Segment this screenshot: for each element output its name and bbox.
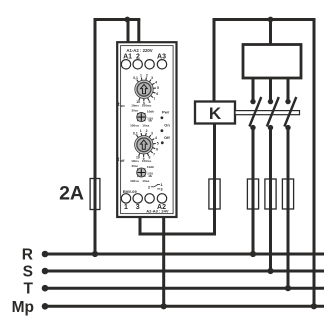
LED Pwr [161, 116, 164, 119]
LED label Pwr [162, 110, 170, 115]
junction: contact 1 on R [250, 251, 256, 257]
LED On [161, 129, 164, 132]
label EMV-09 [123, 189, 138, 194]
svg-text:Off: Off [164, 135, 170, 140]
svg-text:4: 4 [155, 136, 157, 140]
svg-text:6: 6 [156, 92, 158, 96]
svg-text:R: R [22, 247, 33, 264]
wire: load box leg 3 to contact [287, 76, 290, 100]
wire: drop to terminal A1 [127, 20, 130, 46]
fuse on K coil branch [209, 179, 220, 209]
svg-text:100sa: 100sa [130, 124, 139, 128]
contact 3 blade [284, 97, 296, 127]
terminal dot S [42, 268, 49, 275]
svg-text:3: 3 [151, 76, 153, 80]
svg-text:100ms: 100ms [142, 159, 152, 163]
svg-text:7: 7 [153, 152, 155, 156]
svg-text:2A: 2A [59, 183, 84, 205]
LED label On [164, 123, 170, 128]
wire: K coil down through fuse [213, 124, 216, 236]
svg-text:5: 5 [157, 86, 159, 90]
output contact symbol 2-1/3 [148, 182, 164, 191]
svg-text:S: S [23, 264, 33, 281]
svg-text:10dk: 10dk [147, 110, 154, 114]
svg-text:dk: dk [149, 174, 153, 178]
wire: contact 3 down to T line [287, 128, 290, 288]
label Mp [12, 299, 34, 316]
junction: contact 3 on T [285, 285, 291, 291]
terminal dot R [42, 251, 49, 258]
bottom terminal circle 3 [145, 194, 154, 203]
label A1-A2 : 220V [126, 48, 152, 53]
fuse phase 3 [282, 179, 293, 209]
fuse F1 2A (left) [90, 179, 100, 210]
bottom terminal circle 2 [133, 194, 142, 203]
contact 2 lower terminal [268, 125, 273, 130]
label S [23, 264, 33, 281]
contact 1 upper terminal [250, 99, 255, 104]
bus line R [43, 253, 324, 256]
svg-text:4: 4 [155, 80, 157, 84]
svg-text:30sn: 30sn [132, 164, 139, 168]
svg-text:Pwr: Pwr [162, 110, 170, 115]
top terminal circle 2 [133, 60, 142, 69]
contact 1 lower terminal [250, 125, 255, 130]
wire: contact 1 down to R line [252, 128, 255, 254]
terminal dot Mp [42, 303, 49, 310]
wire: load box leg 2 to contact [269, 76, 272, 100]
label toff [118, 157, 126, 163]
top terminal circle 1 [121, 60, 130, 69]
svg-text:10ms: 10ms [131, 159, 139, 163]
svg-text:on: on [120, 104, 124, 108]
terminal label 1 [124, 204, 128, 211]
svg-text:0,1: 0,1 [133, 76, 138, 80]
svg-text:T: T [24, 281, 34, 298]
contact 1 blade [249, 97, 261, 127]
svg-text:2: 2 [146, 129, 148, 133]
svg-text:6: 6 [156, 147, 158, 151]
svg-text:30sn: 30sn [132, 109, 139, 113]
svg-text:100sa: 100sa [130, 179, 139, 183]
wire: right vertical rail to Mp [313, 18, 316, 306]
junction: top-left rail / A1 drop [124, 17, 130, 23]
bottom terminal circle 1 [121, 194, 130, 203]
junction: top-right rail / load feed [268, 17, 274, 23]
wire: rail down to load box [269, 20, 272, 46]
top terminal circle 4 [157, 60, 166, 69]
junction: contact 2 on S [267, 268, 273, 274]
contactor coil K [195, 102, 235, 124]
wire: drop from terminal 3 [139, 216, 142, 236]
svg-text:0,1: 0,1 [133, 132, 138, 136]
label A2-A3 : 24V [146, 209, 169, 214]
svg-text:On: On [164, 123, 170, 128]
terminal label 3 [136, 204, 140, 211]
svg-text:10sa: 10sa [142, 179, 149, 183]
range selector toff [130, 159, 154, 183]
wire: contact 2 down to S line [269, 128, 272, 271]
svg-text:1: 1 [140, 129, 142, 133]
mechanical linkage bar [235, 111, 300, 115]
LED label Off [164, 135, 170, 140]
terminal label A3 [157, 54, 166, 61]
fuse phase 2 [265, 179, 276, 209]
contact 2 upper terminal [268, 99, 273, 104]
timer relay EMV-09 body [117, 42, 176, 217]
wire: top-right horizontal rail [213, 18, 316, 21]
junction: left vertical on R [92, 251, 98, 257]
wire: horizontal link terminal 3 to K branch [139, 233, 217, 236]
top terminal circle 3 [145, 60, 154, 69]
label 2A [59, 183, 84, 205]
wire: rail down to contactor coil K [213, 18, 216, 102]
bottom terminal circle 4 [157, 194, 166, 203]
wire: load box leg 1 to contact [252, 76, 255, 100]
terminal dot T [42, 285, 49, 292]
svg-text:A2-A3 : 24V: A2-A3 : 24V [146, 209, 169, 214]
svg-text:10dk: 10dk [147, 165, 154, 169]
terminal label 2 [136, 54, 140, 61]
load box (three-phase load) [243, 45, 301, 79]
fuse phase 1 [247, 179, 258, 209]
svg-text:3: 3 [151, 132, 153, 136]
svg-text:Mp: Mp [12, 299, 34, 316]
contact 2 blade [267, 97, 279, 127]
junction: A2 wire on Mp [161, 303, 167, 309]
svg-text:1: 1 [124, 204, 128, 211]
dial: toff time setting [133, 129, 159, 161]
wire: left supply vertical (R phase via 2A fuse) [94, 18, 97, 254]
svg-text:5: 5 [157, 141, 159, 145]
svg-text:1: 1 [140, 74, 142, 78]
svg-text:10ms: 10ms [131, 104, 139, 108]
bus line T [43, 287, 324, 290]
wire: top-left horizontal rail [94, 18, 141, 21]
svg-text:dk: dk [149, 119, 153, 123]
bus line S [43, 270, 324, 273]
svg-text:7: 7 [153, 97, 155, 101]
label T [24, 281, 34, 298]
svg-text:2: 2 [146, 74, 148, 78]
terminal label A2 [157, 204, 166, 211]
label ton [118, 102, 125, 108]
svg-text:K: K [209, 104, 222, 123]
terminal label A1 [123, 54, 132, 61]
svg-text:10sa: 10sa [142, 124, 149, 128]
wire: terminal A2 down to Mp line [162, 216, 165, 306]
svg-text:100ms: 100ms [142, 104, 152, 108]
range selector ton [130, 104, 154, 128]
label R [22, 247, 33, 264]
bus line Mp [43, 305, 324, 308]
contact 3 upper terminal [285, 99, 290, 104]
wire: drop to terminal 2 [137, 20, 140, 46]
LED Off [161, 141, 164, 144]
dial: ton time setting [133, 74, 159, 106]
junction: right rail on Mp [311, 303, 317, 309]
svg-text:A1-A2 : 220V: A1-A2 : 220V [126, 48, 152, 53]
svg-text:3: 3 [136, 204, 140, 211]
contact 3 lower terminal [285, 125, 290, 130]
